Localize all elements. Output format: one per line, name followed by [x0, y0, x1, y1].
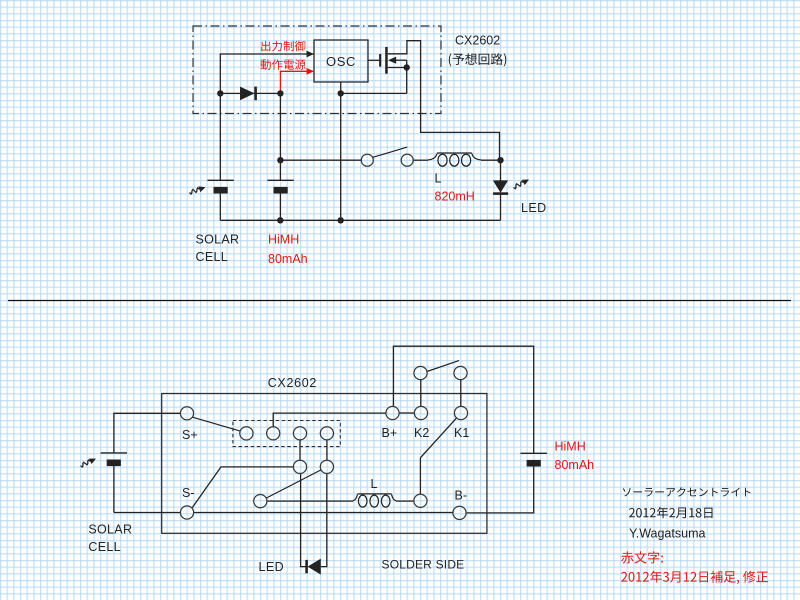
svg-text:K1: K1: [454, 426, 469, 440]
svg-text:SOLDER SIDE: SOLDER SIDE: [382, 558, 465, 572]
svg-text:CELL: CELL: [88, 540, 120, 554]
svg-text:LED: LED: [259, 560, 285, 574]
svg-text:80mAh: 80mAh: [268, 252, 308, 266]
svg-text:CX2602: CX2602: [268, 376, 317, 390]
svg-text:SOLAR: SOLAR: [196, 233, 240, 247]
svg-text:L: L: [371, 477, 378, 491]
svg-text:L: L: [435, 172, 442, 186]
svg-text:S-: S-: [182, 486, 195, 500]
svg-text:SOLAR: SOLAR: [88, 523, 132, 537]
svg-text:K2: K2: [414, 426, 429, 440]
svg-text:S+: S+: [182, 428, 198, 442]
svg-text:OSC: OSC: [326, 54, 356, 69]
svg-text:CELL: CELL: [196, 250, 228, 264]
svg-text:B-: B-: [455, 489, 468, 503]
svg-text:820mH: 820mH: [435, 190, 475, 204]
svg-text:80mAh: 80mAh: [555, 458, 595, 472]
svg-text:CX2602: CX2602: [455, 34, 500, 48]
svg-text:Y.Wagatsuma: Y.Wagatsuma: [629, 527, 705, 541]
svg-text:HiMH: HiMH: [268, 233, 299, 247]
svg-text:HiMH: HiMH: [555, 440, 586, 454]
svg-text:B+: B+: [382, 426, 398, 440]
svg-text:LED: LED: [521, 201, 547, 215]
